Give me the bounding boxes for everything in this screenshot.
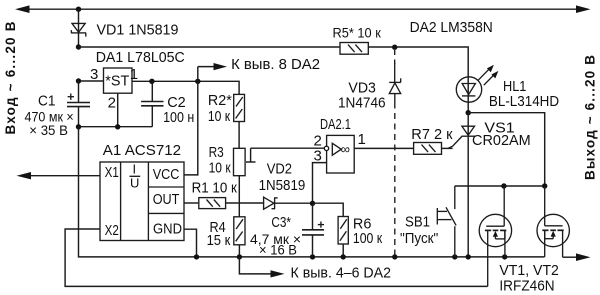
wire R3 wiper to pin 2: [246, 148, 324, 162]
svg-text:R7 2 к: R7 2 к: [411, 126, 453, 143]
wire raw supply rail to R5: [79, 46, 341, 48]
resistor R1: [199, 198, 226, 209]
svg-text:R5* 10 к: R5* 10 к: [333, 25, 382, 41]
svg-text:1: 1: [130, 66, 138, 83]
svg-text:10 к: 10 к: [209, 159, 231, 176]
arrow top right: [576, 5, 591, 13]
svg-text:C3*: C3*: [271, 214, 291, 231]
svg-text:A1 ACS712: A1 ACS712: [103, 142, 181, 159]
resistor R2: [234, 94, 245, 121]
wire gate line: [455, 185, 545, 187]
wire DA1 out +5V rail: [132, 81, 239, 94]
svg-text:CR02AM: CR02AM: [472, 132, 531, 149]
wire ground link C1 C2: [79, 126, 153, 128]
node top rail / VD1: [76, 7, 81, 12]
resistor R3: [234, 148, 246, 175]
node rail GND: [194, 254, 199, 259]
svg-text:*ST: *ST: [105, 73, 129, 90]
wire R5 to LED branch: [368, 47, 468, 113]
wire top input rail: [26, 8, 579, 10]
svg-text:15 к: 15 к: [207, 232, 231, 249]
svg-text:× 16 В: × 16 В: [259, 242, 297, 258]
node VCC tap: [195, 79, 200, 84]
regulator DA1 box: [104, 68, 133, 93]
diode VD1 1N5819 (Schottky): [71, 23, 86, 36]
svg-text:X2: X2: [105, 222, 119, 239]
node rail VS1: [466, 254, 471, 259]
svg-text:IRFZ46N: IRFZ46N: [499, 278, 554, 295]
wire pin 3: [313, 163, 327, 204]
node C2 tap: [149, 79, 154, 84]
wire R4 to rail: [238, 245, 240, 257]
sensor A1 ACS712 box: [100, 162, 184, 241]
node LED cathode: [466, 110, 471, 115]
wire GND: [184, 229, 197, 257]
svg-text:"Пуск": "Пуск": [400, 230, 438, 247]
svg-text:× 35 В: × 35 В: [29, 122, 68, 138]
svg-text:К выв. 4–6 DA2: К выв. 4–6 DA2: [291, 265, 392, 282]
wire X1 input: [29, 175, 100, 177]
svg-text:DA2.1: DA2.1: [320, 116, 351, 133]
node gate VT2: [542, 183, 547, 188]
diode VD2 1N5819 (Schottky): [264, 197, 278, 209]
node rail R6: [341, 254, 346, 259]
capacitor C1: [67, 81, 90, 127]
wire tap to pin 8 DA2: [197, 67, 199, 82]
wire common rail: [79, 127, 545, 257]
arrow input left: [15, 5, 30, 13]
arrow output: [576, 253, 591, 261]
node rail VT1 source: [502, 254, 507, 259]
resistor R5: [340, 43, 368, 55]
wire node to R6: [313, 203, 344, 216]
op-amp DA2.1: [324, 135, 354, 173]
wire R7 to VS1 gate: [442, 147, 453, 149]
wire R1 to VD2: [226, 202, 264, 204]
svg-text:3: 3: [314, 147, 322, 164]
svg-text:SB1: SB1: [405, 213, 430, 230]
svg-text:100 н: 100 н: [163, 109, 194, 126]
svg-text:U: U: [130, 176, 139, 191]
wire X2 return to gates: [65, 229, 488, 286]
node DA1 pin2 gnd: [115, 124, 120, 129]
wire R2 to R3: [238, 122, 240, 149]
node R5/VD3: [392, 45, 397, 50]
resistor R7: [414, 143, 442, 155]
wire VD2 to node: [275, 202, 313, 204]
svg-text:Вход ~ 6...20 В: Вход ~ 6...20 В: [3, 21, 18, 134]
svg-text:GND: GND: [153, 221, 182, 238]
wire output: [563, 256, 577, 258]
node DA1 input: [76, 78, 81, 83]
resistor R6: [338, 217, 348, 245]
wire VCC: [184, 81, 198, 175]
node gate VT1: [501, 183, 506, 188]
arrow X1 input: [17, 172, 32, 179]
svg-text:R1 10 к: R1 10 к: [192, 179, 238, 196]
svg-text:100 к: 100 к: [353, 230, 383, 247]
plus C3: [318, 222, 324, 228]
LED HL1: [456, 77, 481, 102]
svg-text:DA2 LM358N: DA2 LM358N: [410, 19, 493, 36]
svg-text:VD2: VD2: [267, 161, 292, 178]
capacitor C2: [141, 81, 163, 126]
node integrator: [310, 201, 315, 206]
node rail VD3: [392, 254, 397, 259]
svg-text:К выв. 8 DA2: К выв. 8 DA2: [231, 56, 320, 73]
wire dashed VD3 upper: [394, 50, 396, 82]
pushbutton SB1: [437, 186, 456, 257]
wire VS1 vertical: [467, 113, 469, 257]
label I over U: [130, 162, 141, 191]
LED arrow 1: [478, 65, 494, 80]
svg-text:DA1 L78L05C: DA1 L78L05C: [96, 49, 185, 66]
wire R6 to rail: [342, 244, 344, 257]
wire DA1 pin2: [117, 93, 119, 127]
svg-text:C1: C1: [38, 92, 55, 109]
wire DA2.1 pin1 to R7: [354, 147, 413, 149]
wire arrow to pin 8 DA2: [198, 63, 227, 70]
node C1 gnd: [76, 124, 81, 129]
capacitor C3: [302, 203, 324, 257]
svg-text:X1: X1: [105, 164, 119, 181]
node rail SB1: [452, 254, 457, 259]
svg-text:1N5819: 1N5819: [259, 177, 306, 194]
svg-text:VD1 1N5819: VD1 1N5819: [97, 22, 179, 39]
svg-text:BL-L314HD: BL-L314HD: [489, 93, 559, 110]
wire tap to pins 4-6 DA2: [239, 257, 284, 278]
svg-text:2: 2: [108, 94, 116, 111]
node rail R4: [237, 254, 242, 259]
svg-text:10 к: 10 к: [208, 108, 231, 125]
wire R3 to R4: [238, 176, 240, 217]
svg-text:∞: ∞: [341, 141, 350, 156]
transistor VT2 IRFZ46N: [537, 186, 569, 257]
LED arrow 2: [484, 71, 499, 85]
wire LED node to VT2 drain column: [468, 113, 545, 186]
wire VD1 branch: [78, 9, 80, 47]
resistor R4: [234, 217, 245, 245]
svg-text:VCC: VCC: [153, 166, 180, 183]
zener VD3 1N4746: [389, 78, 401, 93]
plus C1: [68, 94, 74, 100]
svg-text:VT1, VT2: VT1, VT2: [499, 262, 559, 279]
transistor VT1 IRFZ46N: [479, 186, 511, 286]
node VD1 cathode: [76, 44, 81, 49]
wire DA1 pin3: [79, 80, 104, 82]
svg-text:I: I: [133, 162, 137, 177]
svg-text:OUT: OUT: [153, 191, 180, 208]
wire OUT: [184, 202, 199, 204]
node rail C3: [310, 254, 315, 259]
thyristor VS1 CR02AM: [448, 126, 475, 148]
svg-text:Выход ~ 6...20 В: Выход ~ 6...20 В: [583, 55, 598, 180]
svg-text:1: 1: [358, 131, 366, 148]
wire dashed VD3 lower: [394, 94, 396, 255]
svg-text:1N4746: 1N4746: [338, 95, 386, 112]
svg-text:R2*: R2*: [208, 92, 232, 109]
